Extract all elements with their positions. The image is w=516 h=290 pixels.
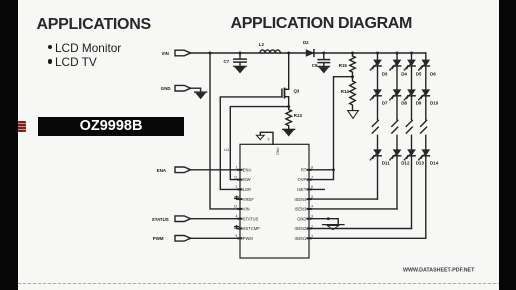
capacitor glyph at VREF pin — [235, 196, 239, 199]
wire R13 top to ISW pin — [230, 107, 288, 180]
capacitor C9 — [312, 53, 330, 68]
node rail junction string 3 — [410, 52, 413, 55]
LED D13 — [404, 150, 415, 161]
svg-text:GND: GND — [161, 86, 171, 91]
part-number black box OZ9998B — [38, 117, 184, 136]
svg-text:1: 1 — [236, 166, 238, 170]
wire LED string 1 — [377, 53, 379, 199]
inductor L2 — [259, 42, 281, 53]
wire ISEN3 to LED string 2 — [309, 208, 397, 210]
wire GND to ground — [191, 88, 201, 92]
svg-text:ISEN2: ISEN2 — [294, 226, 307, 231]
svg-text:3: 3 — [311, 215, 313, 219]
capacitor C7 — [224, 53, 247, 66]
ground arrow at PAD — [256, 135, 264, 139]
svg-text:D7: D7 — [382, 101, 388, 106]
heading APPLICATIONS — [37, 16, 151, 34]
svg-text:STATUS: STATUS — [152, 217, 169, 222]
svg-text:1: 1 — [311, 234, 313, 238]
svg-text:GND: GND — [297, 216, 306, 221]
IC left pin names — [243, 167, 260, 241]
svg-text:C9: C9 — [312, 63, 318, 68]
svg-text:PAD: PAD — [276, 148, 280, 156]
svg-text:12: 12 — [234, 205, 238, 209]
connector GND — [161, 85, 191, 91]
svg-text:D8: D8 — [401, 101, 407, 106]
LED D8 — [389, 90, 400, 101]
svg-text:D6: D6 — [430, 71, 436, 76]
wire Q3 gate to LDR pin — [220, 97, 282, 189]
LED D3 — [370, 60, 381, 71]
connector PWM — [153, 236, 191, 242]
op-amp U1 IC body — [224, 144, 309, 258]
svg-text:ISEN3: ISEN3 — [294, 207, 307, 212]
svg-text:D5: D5 — [416, 71, 422, 76]
svg-text:D13: D13 — [416, 160, 425, 165]
svg-text:D11: D11 — [382, 160, 391, 165]
svg-text:VREF: VREF — [243, 197, 254, 202]
heading APPLICATION DIAGRAM — [231, 15, 413, 33]
svg-text:8: 8 — [311, 166, 313, 170]
capacitor glyph at SSTCMP pin — [235, 226, 239, 229]
node VIN/IC-VIN junction — [209, 52, 212, 55]
resistor R14 — [341, 77, 356, 111]
svg-text:PWM: PWM — [153, 236, 164, 241]
svg-text:STATUS: STATUS — [243, 216, 259, 221]
break marks string 2 — [392, 120, 398, 133]
svg-text:D3: D3 — [382, 71, 388, 76]
svg-text:D10: D10 — [430, 101, 439, 106]
svg-text:ISET: ISET — [297, 187, 307, 192]
svg-text:11: 11 — [234, 175, 238, 179]
node R15 junction — [351, 52, 354, 55]
node Q3 drain junction — [287, 52, 290, 55]
connector VIN — [162, 50, 191, 56]
node rail junction string 2 — [396, 52, 399, 55]
node rail junction string 1 — [376, 52, 379, 55]
wire PAD pin to ground arrow — [260, 132, 273, 144]
break marks string 1 — [372, 120, 378, 133]
wire LED string 3 — [411, 53, 413, 229]
IC left pin numbers — [234, 166, 238, 239]
svg-text:2: 2 — [311, 224, 313, 228]
node GND pin junction — [327, 217, 330, 220]
wire LED string 4 — [425, 53, 427, 238]
IC right pin numbers — [311, 166, 313, 239]
right letterbox bar — [499, 0, 516, 290]
bullet LCD Monitor — [48, 45, 52, 49]
wire LED string 2 — [396, 53, 398, 209]
svg-text:C7: C7 — [224, 59, 230, 64]
transistor Q3 (MOSFET) — [282, 53, 300, 107]
ground at GND pin — [323, 225, 344, 230]
open arrow below R14 — [348, 111, 359, 119]
ground below C7 — [234, 66, 246, 72]
LED D7 — [370, 90, 381, 101]
wire VIN rail to IC VIN pin — [210, 53, 240, 209]
svg-text:ISEN1: ISEN1 — [294, 236, 307, 241]
node C9 junction — [322, 52, 325, 55]
svg-text:7: 7 — [311, 175, 313, 179]
node C7 junction — [239, 52, 242, 55]
svg-text:D2: D2 — [303, 40, 309, 45]
wire STATUS to pin — [191, 218, 240, 220]
svg-text:ISW: ISW — [243, 177, 251, 182]
wire ISEN2 to LED string 3 — [309, 228, 412, 230]
svg-text:6: 6 — [311, 185, 313, 189]
svg-text:D9: D9 — [416, 101, 422, 106]
ground below C9 — [318, 67, 329, 73]
svg-text:ENA: ENA — [157, 168, 167, 173]
svg-text:VIN: VIN — [162, 51, 169, 56]
left letterbox bar — [0, 0, 18, 290]
svg-text:Q3: Q3 — [294, 89, 300, 94]
svg-text:9: 9 — [268, 138, 270, 142]
ground at GND input — [195, 92, 207, 99]
svg-text:LDR: LDR — [243, 187, 251, 192]
IC right pin names — [294, 167, 307, 241]
bottom separator line — [18, 283, 499, 284]
wire ISET stub — [309, 188, 324, 190]
node RT tee — [332, 168, 335, 171]
wire VIN rail — [191, 52, 426, 54]
small red bookmark icon on left bar — [18, 121, 26, 132]
svg-text:ENA: ENA — [243, 167, 252, 172]
wire ENA to pin — [191, 169, 240, 171]
LED D12 — [389, 150, 400, 161]
bullet LCD TV — [48, 59, 52, 63]
svg-text:U1: U1 — [224, 148, 229, 152]
svg-text:R14: R14 — [341, 89, 350, 94]
svg-text:5: 5 — [311, 195, 313, 199]
node divider tap — [351, 75, 354, 78]
LED D14 — [418, 150, 429, 161]
wire ISEN4 to LED string 1 — [309, 198, 378, 200]
wire divider tap to OVP/RT — [309, 77, 353, 180]
svg-text:R15: R15 — [339, 63, 348, 68]
svg-text:ISEN4: ISEN4 — [294, 197, 307, 202]
svg-text:5: 5 — [236, 234, 238, 238]
LED D10 — [418, 90, 429, 101]
svg-text:4: 4 — [311, 205, 313, 209]
break marks string 3 — [406, 120, 412, 133]
resistor R15 — [339, 53, 356, 77]
svg-text:L2: L2 — [259, 42, 265, 47]
wire ISEN1 to LED string 4 — [309, 237, 426, 239]
svg-text:4: 4 — [236, 215, 238, 219]
node Q3 source / R13 junction — [287, 105, 290, 108]
svg-text:RT: RT — [301, 167, 307, 172]
IC right pin ticks — [308, 170, 311, 239]
LED D11 — [370, 150, 381, 161]
svg-text:OVP: OVP — [298, 177, 307, 182]
svg-text:D4: D4 — [401, 71, 407, 76]
svg-text:2: 2 — [236, 185, 238, 189]
ground below R13 — [283, 129, 295, 136]
svg-text:R13: R13 — [294, 113, 303, 118]
diode D2 — [303, 40, 314, 56]
break marks string 4 — [421, 120, 427, 133]
svg-text:SSTCMP: SSTCMP — [243, 226, 260, 231]
connector ENA — [157, 167, 191, 173]
wire GND pin — [309, 219, 338, 225]
wire RT pin — [309, 169, 334, 171]
svg-text:D14: D14 — [430, 160, 439, 165]
resistor R13 — [286, 107, 303, 130]
svg-text:PWM: PWM — [243, 236, 254, 241]
LED D5 — [404, 60, 415, 71]
svg-text:D12: D12 — [401, 160, 410, 165]
wire PWM to pin — [191, 237, 240, 239]
LED D6 — [418, 60, 429, 71]
IC left pin ticks — [238, 170, 241, 239]
connector STATUS — [152, 216, 191, 222]
LED D4 — [389, 60, 400, 71]
LED D9 — [404, 90, 415, 101]
svg-text:VIN: VIN — [243, 207, 250, 212]
